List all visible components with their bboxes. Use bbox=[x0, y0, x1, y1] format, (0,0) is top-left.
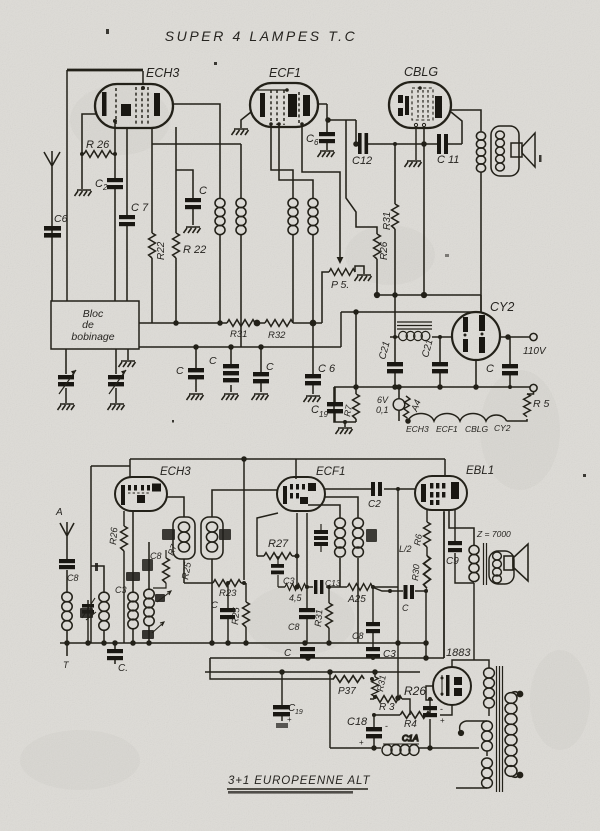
resistor R26 (vertical top) bbox=[374, 234, 390, 295]
1883 wires bbox=[426, 583, 489, 715]
heater chain arcs bbox=[406, 414, 527, 424]
rail top bottom-schematic bbox=[91, 457, 445, 643]
svg-text:ECH3: ECH3 bbox=[160, 466, 191, 478]
speaker output coil (top) bbox=[476, 132, 485, 312]
svg-text:ECF1: ECF1 bbox=[269, 66, 301, 80]
svg-text:R 5: R 5 bbox=[533, 398, 550, 410]
tube CY2 bbox=[452, 312, 500, 360]
power transformer HT winding bbox=[484, 668, 495, 716]
svg-text:ECF1: ECF1 bbox=[436, 424, 458, 434]
svg-text:ECF1: ECF1 bbox=[316, 466, 345, 478]
capacitor C21 a bbox=[377, 295, 403, 387]
wire ECF1 to coil D bbox=[279, 124, 313, 198]
svg-text:C12: C12 bbox=[352, 155, 372, 167]
svg-text:C: C bbox=[284, 648, 292, 659]
svg-text:19: 19 bbox=[319, 410, 328, 419]
heater labels bbox=[406, 423, 511, 434]
svg-text:+: + bbox=[359, 738, 364, 747]
capacitor C19 (bottom) bbox=[273, 672, 303, 728]
terminal T bbox=[63, 660, 70, 670]
svg-text:C6: C6 bbox=[54, 213, 68, 225]
svg-text:C: C bbox=[311, 404, 319, 416]
wire grid feed to R26v bbox=[346, 120, 377, 234]
resistor R7 bbox=[342, 387, 359, 422]
label CY2 bbox=[490, 300, 514, 314]
label EBL1 bbox=[466, 465, 494, 477]
svg-text:R31: R31 bbox=[313, 609, 325, 627]
filter choke bbox=[390, 322, 452, 341]
capacitor C. (below rail) bbox=[107, 643, 128, 674]
svg-text:19: 19 bbox=[295, 709, 303, 716]
svg-text:R31: R31 bbox=[230, 329, 247, 340]
ground below CBL6 bbox=[405, 127, 422, 167]
svg-text:ECH3: ECH3 bbox=[406, 424, 429, 434]
grid coil 3 (bottom) bbox=[128, 511, 138, 643]
svg-text:0,1: 0,1 bbox=[376, 405, 389, 415]
power transformer winding 3 bbox=[456, 758, 492, 788]
wire CY2 to terminal bbox=[500, 335, 530, 339]
capacitor C19 bbox=[311, 387, 356, 422]
svg-text:CBLG: CBLG bbox=[404, 65, 438, 79]
svg-text:C1A: C1A bbox=[402, 733, 419, 743]
power transformer secondary bbox=[505, 691, 523, 777]
resistor R4 (diagonal) bbox=[403, 396, 423, 418]
resistor R3 bbox=[370, 696, 402, 713]
svg-text:C: C bbox=[209, 355, 217, 367]
antenna (bottom) bbox=[60, 522, 74, 559]
svg-text:R32: R32 bbox=[268, 330, 286, 341]
lamp 6V 0.1 bbox=[376, 387, 405, 421]
svg-text:R26: R26 bbox=[404, 684, 426, 698]
wire R26 to ground bbox=[81, 154, 83, 189]
capacitor C6 (ECF1 anode) bbox=[306, 104, 335, 150]
capacitor C (screen ECH3) bbox=[176, 170, 207, 225]
label CBL6 bbox=[404, 65, 438, 79]
caption 3+1 EUROPEENNE ALT bbox=[227, 775, 371, 794]
svg-text:110V: 110V bbox=[523, 346, 547, 357]
capacitor C (bottom mid-left) bbox=[211, 581, 235, 643]
ground trimmer 1 bbox=[58, 404, 75, 410]
svg-text:R 26: R 26 bbox=[86, 139, 110, 151]
svg-text:C: C bbox=[199, 185, 207, 197]
label Z=7000 bbox=[476, 529, 511, 539]
svg-text:R31: R31 bbox=[382, 212, 393, 230]
bus wire with R31 R32 bbox=[139, 320, 322, 325]
svg-text:L/2: L/2 bbox=[399, 544, 412, 554]
svg-text:C 6: C 6 bbox=[318, 363, 336, 375]
svg-text:6: 6 bbox=[314, 138, 319, 147]
svg-text:A25: A25 bbox=[347, 594, 366, 605]
svg-text:C: C bbox=[95, 178, 103, 190]
svg-text:R26: R26 bbox=[379, 241, 390, 260]
svg-text:-: - bbox=[440, 704, 443, 714]
resistor R27 bbox=[257, 513, 297, 559]
resistor R22 b bbox=[173, 144, 207, 323]
smudge cap blob bbox=[142, 559, 153, 571]
power transformer core bbox=[497, 666, 503, 792]
smudged small labels (bottom left) bbox=[80, 563, 165, 639]
svg-text:C: C bbox=[402, 603, 409, 613]
svg-text:3+1 EUROPEENNE ALT: 3+1 EUROPEENNE ALT bbox=[228, 775, 371, 787]
resistor R22 a bbox=[149, 144, 167, 323]
label ECF1 bbox=[269, 66, 301, 80]
potentiometer P37 bbox=[210, 672, 374, 697]
wire ECH3 anode to IF coil bbox=[173, 104, 220, 198]
ground C1 bbox=[187, 394, 204, 400]
svg-text:C8: C8 bbox=[288, 622, 300, 632]
wire ECF1 wiper feed bbox=[302, 124, 340, 258]
power transformer winding 2 bbox=[466, 721, 492, 756]
capacitor C 6 (AVC line) bbox=[305, 347, 336, 394]
label R25 rotated (bottom left) bbox=[180, 561, 194, 581]
capacitor C (AVC 2) bbox=[209, 347, 239, 392]
label ECF1 bottom bbox=[316, 466, 345, 478]
svg-text:C: C bbox=[211, 600, 218, 611]
capacitor under R27 bbox=[271, 556, 295, 587]
svg-text:R4: R4 bbox=[404, 719, 417, 730]
resistor 45 row bbox=[278, 584, 306, 603]
svg-text:Z = 7000: Z = 7000 bbox=[476, 529, 511, 539]
svg-text:C: C bbox=[266, 361, 274, 373]
svg-text:SUPER 4 LAMPES T.C: SUPER 4 LAMPES T.C bbox=[165, 28, 358, 44]
output transformer core (bottom) bbox=[484, 543, 487, 585]
wire EBL1 cathode to rail2 bbox=[443, 510, 445, 658]
IF transformer 2 coil B (bottom) bbox=[325, 497, 363, 643]
svg-text:R27: R27 bbox=[268, 538, 289, 550]
ground trimmer 2 bbox=[108, 404, 125, 410]
svg-text:R 3: R 3 bbox=[379, 702, 395, 713]
svg-text:-: - bbox=[385, 721, 388, 731]
IF2 side capacitor bbox=[314, 524, 328, 552]
title SUPER 4 LAMPES T.C bbox=[165, 28, 358, 44]
rail 2 (y658) bbox=[210, 512, 444, 672]
svg-text:C: C bbox=[486, 363, 494, 375]
tube 1883 bbox=[433, 667, 471, 705]
resistor R4 (bottom) bbox=[374, 699, 430, 730]
wire top bus bbox=[67, 69, 143, 72]
tube ECH3 (bottom) bbox=[115, 477, 167, 511]
wire CBL6 grid column bbox=[422, 127, 426, 295]
ground below C6 bbox=[318, 151, 335, 157]
IF coil C bbox=[288, 198, 298, 323]
label R26 (bottom right) bbox=[404, 684, 426, 698]
svg-text:C 7: C 7 bbox=[131, 202, 149, 214]
wire ECH3 top feed bbox=[142, 71, 144, 84]
output transformer primary (bottom speaker) bbox=[449, 510, 479, 582]
svg-text:C 11: C 11 bbox=[437, 154, 459, 166]
resistor R26 (top left) bbox=[80, 139, 117, 157]
wire CY2 cathode down bbox=[475, 360, 477, 387]
svg-text:2: 2 bbox=[102, 183, 108, 192]
capacitor C7 bbox=[119, 127, 149, 301]
arrow wiper P5 bbox=[337, 257, 344, 264]
svg-text:+: + bbox=[440, 716, 445, 725]
ground C19 R7 bbox=[336, 420, 353, 434]
resistor R7 (bottom left) bbox=[153, 543, 179, 588]
wire ECF1b screen column bbox=[295, 513, 299, 589]
IF2 smudge label bbox=[366, 529, 377, 542]
capacitor C9 bbox=[446, 510, 474, 583]
tube EBL1 bbox=[415, 476, 467, 510]
speaker cone (bottom) bbox=[504, 544, 528, 581]
svg-text:C: C bbox=[176, 365, 184, 377]
terminal 110V bottom bbox=[530, 384, 537, 391]
speaker box and coil (bottom) bbox=[489, 551, 514, 584]
potentiometer P5 bbox=[322, 266, 364, 323]
antenna bbox=[44, 151, 60, 301]
rail y387 bbox=[334, 385, 530, 389]
ground ECF1 grid bbox=[232, 112, 252, 135]
label C8 (bottom left) bbox=[150, 551, 162, 561]
resistor R31 (bus) bbox=[227, 320, 255, 340]
svg-text:bobinage: bobinage bbox=[71, 331, 114, 343]
svg-text:C: C bbox=[306, 133, 314, 145]
resistor R32 (bus) bbox=[265, 320, 293, 341]
trimmer arrow marks on coils bbox=[86, 591, 171, 633]
antenna coil (bottom) bbox=[62, 592, 72, 656]
label C3 (bottom left) bbox=[115, 585, 127, 595]
capacitor C2 bbox=[95, 121, 123, 301]
svg-text:C3: C3 bbox=[115, 585, 127, 595]
svg-text:R22: R22 bbox=[156, 241, 167, 260]
speaker cone (top) bbox=[511, 133, 535, 167]
svg-text:CBLG: CBLG bbox=[465, 424, 489, 434]
svg-text:CY2: CY2 bbox=[490, 300, 514, 314]
terminal 110V top bbox=[523, 333, 547, 357]
label ECH3 bottom bbox=[160, 466, 191, 478]
svg-text:P 5.: P 5. bbox=[331, 279, 349, 291]
tube ECH3 (top) bbox=[95, 84, 173, 128]
svg-text:EBL1: EBL1 bbox=[466, 465, 494, 477]
svg-text:C2: C2 bbox=[368, 499, 381, 510]
ground below R26 bbox=[75, 190, 92, 196]
resistor R6 (EBL1) bbox=[399, 510, 430, 554]
svg-text:C.: C. bbox=[118, 663, 128, 674]
wire x356 column bbox=[355, 312, 357, 387]
svg-text:+: + bbox=[287, 715, 292, 724]
filter choke (bottom) bbox=[330, 672, 479, 755]
label A antenna bbox=[55, 507, 63, 518]
hook terminal left bbox=[459, 721, 466, 735]
wire ECF1 cathode to coil C bbox=[271, 124, 293, 198]
capacitor C (AVC 3) bbox=[253, 347, 274, 392]
trimmer capacitor 2 bbox=[108, 349, 126, 403]
svg-text:C8: C8 bbox=[67, 573, 79, 583]
wire h-line under ECH3 bbox=[152, 127, 241, 198]
capacitor C8 (bottom mid) bbox=[288, 513, 315, 643]
resistor R30 bbox=[410, 547, 430, 658]
wire anode h-line y120 bbox=[326, 118, 356, 122]
ground below C bbox=[184, 227, 201, 233]
label 1883 bbox=[446, 647, 471, 659]
IF transformer (bottom, 1st) box A bbox=[167, 497, 195, 583]
input coil 2 (bottom) bbox=[91, 566, 109, 643]
svg-text:de: de bbox=[82, 319, 94, 331]
tube ECF1 (bottom) bbox=[277, 477, 325, 511]
svg-text:C9: C9 bbox=[446, 556, 459, 567]
ground C2row bbox=[222, 394, 239, 400]
IF transformer 2 coil A (bottom) bbox=[308, 505, 345, 587]
ground C6b bbox=[304, 396, 321, 402]
capacitor C18 bbox=[347, 713, 388, 748]
svg-text:ECH3: ECH3 bbox=[146, 66, 179, 80]
resistor R26 (bottom) bbox=[108, 511, 127, 643]
ground box stub bbox=[119, 349, 136, 367]
wire R26 to tube grid bbox=[82, 114, 96, 154]
IF coil D bbox=[308, 198, 318, 347]
capacitor C (AVC 1) bbox=[176, 347, 204, 392]
resistor R31 (bottom right) bbox=[372, 672, 388, 699]
ground P5 bbox=[355, 275, 372, 281]
trimmer capacitor 1 bbox=[58, 349, 76, 403]
IF coil B bbox=[236, 198, 246, 347]
capacitor C filter bbox=[486, 337, 518, 389]
svg-text:1883: 1883 bbox=[446, 647, 471, 659]
speaker box and voice coil (top) bbox=[491, 126, 519, 176]
resistor R5 bbox=[524, 391, 550, 417]
resistor R25 (bottom left) bbox=[230, 583, 249, 643]
resistor A25 bbox=[347, 584, 398, 605]
resistor R31 (bottom mid) bbox=[313, 585, 332, 643]
IF coil A (ECH3 anode) bbox=[215, 198, 225, 323]
wire x398 column bbox=[396, 489, 400, 700]
svg-text:CY2: CY2 bbox=[494, 423, 511, 433]
capacitor C2 (coupling bottom) bbox=[325, 482, 415, 510]
svg-text:R26: R26 bbox=[108, 526, 121, 545]
wire C12 left column bbox=[354, 120, 358, 146]
capacitor C6 antenna bbox=[44, 213, 68, 238]
capacitor on rail2 bbox=[284, 647, 315, 659]
IF transformer (bottom, 1st) box B bbox=[201, 490, 277, 643]
tube CBL6 (top) bbox=[389, 82, 451, 128]
svg-text:4,5: 4,5 bbox=[289, 593, 303, 603]
transformer smudge labels bbox=[162, 529, 231, 540]
capacitor C11 bbox=[437, 112, 462, 166]
resistor R31 (top) bbox=[382, 142, 398, 295]
trimmer (bottom input) bbox=[82, 598, 95, 643]
capacitor C12 bbox=[352, 133, 437, 167]
tube ECF1 (top) bbox=[250, 83, 318, 127]
main ground rail (bottom) bbox=[60, 641, 426, 645]
wire y295 line bbox=[375, 293, 481, 312]
resistor R23 bbox=[184, 580, 246, 599]
rail 3 (y672) bbox=[205, 670, 420, 674]
rail y347 bbox=[139, 310, 481, 349]
coil 4 (bottom) bbox=[144, 542, 154, 643]
capacitor C21 b bbox=[420, 335, 448, 387]
svg-text:R30: R30 bbox=[410, 564, 421, 581]
Bloc de bobinage box bbox=[51, 301, 139, 349]
svg-text:C18: C18 bbox=[347, 716, 368, 728]
svg-text:R 22: R 22 bbox=[183, 244, 206, 256]
capacitor C8 / C3 stack right bbox=[352, 585, 396, 660]
capacitor C8 antenna bbox=[59, 559, 79, 592]
wire speaker feed bbox=[451, 110, 481, 131]
svg-text:A: A bbox=[55, 507, 63, 518]
capacitor (1883 cathode) bbox=[423, 697, 445, 748]
wire left vertical bbox=[66, 70, 68, 301]
capacitor C13 bbox=[306, 578, 347, 594]
label ECH3 bbox=[146, 66, 179, 80]
svg-text:R25: R25 bbox=[230, 606, 243, 625]
ground C3row bbox=[252, 394, 269, 400]
svg-text:P37: P37 bbox=[338, 686, 356, 697]
svg-text:6V: 6V bbox=[377, 395, 389, 405]
capacitor C3 right (series) bbox=[372, 585, 428, 613]
svg-text:R6: R6 bbox=[412, 533, 424, 546]
